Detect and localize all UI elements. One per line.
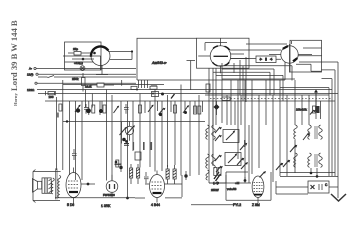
resistor R1: [68, 52, 91, 56]
label t13RK: [101, 204, 111, 208]
svg-text:FYL2: FYL2: [233, 203, 241, 207]
resistor R19: [116, 160, 119, 167]
resistor R10: [174, 105, 177, 113]
tube U2: [198, 38, 249, 73]
trimmer C13: [283, 160, 290, 167]
box oscillator enclosure: [65, 42, 102, 70]
label tV3: [151, 203, 160, 207]
svg-text:FW4/500: FW4/500: [103, 193, 115, 197]
svg-text:25kW: 25kW: [211, 188, 219, 192]
junction dot b: [55, 197, 135, 200]
tube V2 rectifier: [106, 175, 118, 198]
wire bus y93.5: [38, 93, 338, 95]
capacitor C10: [72, 149, 77, 160]
svg-text:C: C: [325, 183, 328, 187]
coil CH2 core: [56, 168, 57, 199]
label t100: [49, 95, 54, 99]
label tp4: [213, 181, 218, 185]
label tpM: [235, 181, 240, 185]
wire coil joins: [209, 101, 338, 183]
svg-text:5 D6: 5 D6: [67, 203, 74, 207]
resistor R14: [115, 152, 142, 165]
wire bus y101: [45, 100, 335, 102]
label tin2: [27, 72, 33, 76]
coil CH3: [58, 175, 61, 197]
trimmer C22: [303, 133, 310, 140]
resistor R11: [194, 106, 201, 114]
resistor R5: [92, 105, 95, 113]
terminal E: [36, 73, 63, 75]
trimmer C16: [260, 171, 267, 177]
coil T2 trimmers: [215, 155, 223, 172]
label tin3: [27, 88, 35, 92]
wire top connections U2: [139, 43, 247, 102]
chassis dashed line: [210, 98, 332, 100]
coil T3 secondary: [308, 125, 323, 139]
resistor R12: [222, 97, 230, 100]
svg-text:25p: 25p: [73, 47, 78, 51]
capacitor C15: [144, 172, 149, 183]
coil T1 primary: [206, 125, 216, 139]
trimmer C7: [183, 105, 189, 114]
label t25kW: [211, 188, 219, 192]
resistor R0: [131, 86, 137, 89]
resistor R4: [57, 104, 62, 118]
label tEMin: [227, 187, 237, 191]
resistor R15: [130, 164, 133, 184]
svg-text:4 B44: 4 B44: [151, 203, 160, 207]
pot P1: [125, 121, 135, 140]
coil T4 primary: [294, 153, 298, 167]
ground arrow: [331, 194, 346, 201]
label t250k: [72, 77, 79, 81]
IF can F1: [256, 56, 276, 63]
wire U3 right drops: [280, 48, 338, 88]
svg-text:1 3RK: 1 3RK: [101, 204, 111, 208]
junction dot d: [310, 172, 319, 178]
wire bus y95 right: [205, 94, 329, 96]
svg-text:250k: 250k: [72, 77, 79, 81]
label t212: [85, 85, 92, 89]
tube V4 magic eye: [252, 176, 264, 203]
svg-text:100: 100: [49, 95, 54, 99]
wire vertical group right: [209, 63, 309, 183]
trimmer C17: [114, 106, 120, 113]
box output enclosure: [290, 40, 322, 72]
tube U1: [63, 46, 110, 70]
wire tube1 bottom: [96, 66, 108, 75]
label tin1: [29, 67, 32, 71]
coil T3 primary: [294, 125, 298, 139]
tube V1 output: [66, 168, 81, 204]
trimmer C14: [290, 145, 297, 152]
box EM enclosure: [226, 172, 271, 200]
trimmer C18: [240, 143, 247, 150]
svg-text:10k•10k: 10k•10k: [296, 108, 307, 112]
model label text: [9, 20, 19, 106]
box dial enclosure: [137, 38, 285, 80]
trimmer C3: [75, 105, 81, 113]
terminal A: [34, 67, 63, 69]
junction blob: [214, 101, 220, 115]
trimmer P2: [120, 122, 128, 144]
wire vertical group far right: [316, 62, 338, 198]
trimmer C21: [241, 162, 248, 169]
svg-text:v+2+/88: v+2+/88: [227, 187, 237, 191]
speaker SP: [33, 178, 42, 193]
label smudge v3: [151, 142, 153, 150]
svg-text:12(²): 12(²): [27, 72, 33, 76]
capacitor C5: [124, 104, 129, 114]
wire antenna feed: [63, 69, 136, 78]
svg-text:A•: A•: [29, 67, 32, 71]
svg-text:Horny Lord 39 B W 144 B: Horny Lord 39 B W 144 B: [9, 20, 19, 106]
label smudge v4: [244, 140, 246, 147]
wire bottom links: [135, 175, 234, 205]
junction dot c: [217, 179, 247, 184]
trimmer C6: [148, 105, 154, 112]
wire U2-U3 links: [230, 44, 287, 59]
trimmer C12: [276, 163, 283, 170]
resistor R22: [206, 84, 210, 92]
box IF2 trimmer: [225, 153, 241, 166]
wire mid horizontals: [213, 66, 295, 101]
wire speaker loop: [33, 170, 61, 203]
box IF enclosure: [197, 38, 250, 68]
label tZ8M: [252, 203, 260, 207]
wire dial corner: [108, 50, 133, 59]
wire x249: [248, 125, 250, 183]
svg-text:Am540-o·: Am540-o·: [151, 61, 167, 65]
label t10k: [296, 108, 307, 112]
capacitor C4: [84, 104, 91, 114]
resistor R21: [218, 168, 221, 176]
terminal 12W: [35, 82, 136, 84]
resistor R9: [159, 108, 166, 116]
lamp L1: [80, 66, 85, 71]
wire mains links: [276, 181, 338, 194]
junction dot a: [81, 183, 95, 186]
svg-text:(+4): (+4): [213, 181, 218, 185]
svg-text:123Ω: 123Ω: [27, 88, 35, 92]
capacitor C8 electrolytic: [314, 90, 318, 113]
capacitor C2: [90, 83, 114, 87]
resistor R13: [310, 106, 320, 115]
svg-text:212k: 212k: [85, 85, 92, 89]
label t5D6: [67, 203, 74, 207]
label smudge v2: [143, 142, 145, 150]
resistor R6: [99, 105, 106, 113]
tube U3: [269, 41, 312, 73]
switch S1: [38, 76, 63, 78]
coil CH1: [51, 178, 54, 194]
label smudge v1: [133, 142, 135, 150]
resistor R8: [139, 105, 142, 113]
resistor R3: [46, 91, 56, 95]
wire y121 mid: [63, 120, 205, 122]
svg-text:Z 8M: Z 8M: [252, 203, 260, 207]
resistor R1k: [150, 84, 175, 98]
resistor R16: [137, 164, 140, 184]
trimmer C11: [237, 158, 244, 165]
svg-text:+12(+): +12(+): [74, 61, 83, 65]
wire bus y89.5: [37, 89, 332, 91]
transformer TR1: [42, 178, 51, 193]
label t12: [74, 61, 83, 65]
wire EM links: [209, 175, 251, 183]
resistor R17: [166, 165, 169, 184]
label tC: [325, 183, 328, 187]
capacitor C9: [124, 140, 129, 145]
label t25p: [73, 47, 78, 51]
tube V3: [150, 171, 165, 203]
coil T2b: [206, 170, 221, 181]
svg-text:+M: +M: [235, 181, 240, 185]
capacitor C1: [72, 58, 94, 61]
capacitor C20: [184, 171, 187, 180]
resistor R20: [214, 168, 217, 176]
coil T4 secondary: [308, 153, 323, 167]
wire vertical group mid: [121, 85, 203, 199]
wire vertical group left: [56, 80, 112, 181]
coil T1 trimmers: [215, 127, 222, 141]
label tFYL: [233, 203, 241, 207]
box IF1 trimmer: [223, 130, 239, 143]
label tFW: [103, 193, 115, 197]
label A1: [151, 61, 167, 65]
resistor R2: [82, 73, 86, 92]
box mains block: [308, 181, 329, 193]
resistor R18: [173, 165, 176, 184]
coil T2 primary: [206, 154, 216, 168]
wire y84.5: [63, 80, 164, 95]
capacitor C19: [119, 163, 122, 172]
